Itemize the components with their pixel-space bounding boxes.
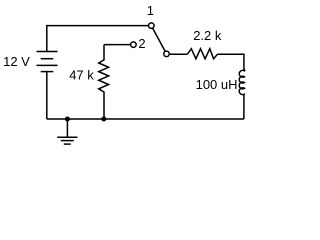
- switch terminal 1 circle: [149, 23, 155, 29]
- switch pole circle: [164, 51, 170, 57]
- wire bottom rail: [47, 118, 244, 120]
- wire top rail from battery to switch terminal 1: [47, 26, 149, 52]
- svg-text:1: 1: [147, 3, 154, 18]
- resistor 47 k (vertical zigzag): [99, 45, 109, 119]
- wire 47k top to switch terminal 2: [104, 44, 131, 46]
- junction dot at 47k bottom node: [101, 117, 106, 122]
- svg-text:100 uH: 100 uH: [196, 77, 238, 92]
- ground: [57, 119, 77, 144]
- inductor L1 100 uH (coil): [239, 70, 245, 95]
- switch blade from terminal 1 to pole: [153, 28, 166, 51]
- junction dot at ground node: [65, 117, 70, 122]
- wire inductor bottom to bottom rail: [243, 94, 245, 119]
- battery B1 plate long lower: [37, 64, 58, 66]
- battery B1 plate short bottom: [41, 71, 54, 73]
- wire 2.2k to top right corner and down to inductor: [218, 54, 244, 70]
- battery B1 plate short upper: [41, 58, 54, 60]
- switch terminal 2 circle: [131, 42, 137, 48]
- wire switch pole to 2.2k resistor: [169, 53, 187, 55]
- resistor 2.2 k (horizontal zigzag): [187, 49, 217, 59]
- svg-text:2: 2: [138, 36, 145, 51]
- battery B1 plate long top: [37, 51, 58, 53]
- svg-text:12 V: 12 V: [3, 54, 30, 69]
- wire battery negative lead down to bottom rail: [46, 72, 48, 119]
- svg-text:47 k: 47 k: [69, 68, 94, 83]
- svg-text:2.2 k: 2.2 k: [193, 28, 222, 43]
